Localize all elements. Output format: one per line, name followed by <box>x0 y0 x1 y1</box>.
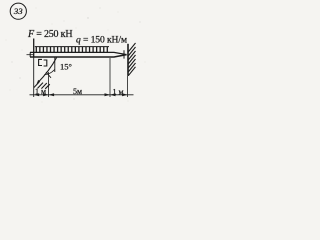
beam bottom line <box>30 55 127 57</box>
problem number circle 33 <box>10 3 26 19</box>
distributed load q top line <box>35 46 109 48</box>
svg-text:q = 150 кН/м: q = 150 кН/м <box>76 34 127 45</box>
extension line at x=48.6 <box>48 72 50 97</box>
beam axis tick at left end <box>27 54 34 56</box>
svg-text:5м: 5м <box>73 87 82 96</box>
channel section symbol [] <box>39 59 42 65</box>
svg-text:1 м: 1 м <box>112 87 123 96</box>
beam top line <box>30 52 127 54</box>
angle arc <box>44 70 54 75</box>
extension line at x=110 <box>109 58 111 97</box>
beam left end cap <box>29 52 31 57</box>
force F diagonal line at 15 deg <box>37 58 57 84</box>
wall line <box>127 44 129 76</box>
wall extension down to dimension line <box>127 76 129 97</box>
wall hatching <box>128 43 135 76</box>
svg-text:F = 250 кН: F = 250 кН <box>27 29 72 40</box>
force F line / left extension line <box>33 57 35 97</box>
vertical angle reference line <box>54 58 56 73</box>
svg-text:33: 33 <box>13 6 23 16</box>
dimension arrowheads <box>34 93 128 96</box>
background <box>0 0 150 106</box>
anchor hatch strokes <box>34 82 50 89</box>
dimension line <box>30 94 134 96</box>
small vertical tick before wall <box>123 50 125 58</box>
short cross stroke on arc <box>46 72 51 78</box>
distributed load ticks <box>36 47 107 53</box>
svg-text:1 м: 1 м <box>35 87 46 96</box>
force arrowhead <box>37 80 40 84</box>
scan noise speckles <box>6 7 146 102</box>
svg-text:15°: 15° <box>60 62 72 72</box>
